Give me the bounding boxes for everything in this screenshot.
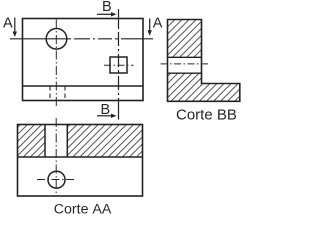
front view outline xyxy=(23,19,144,101)
square recess xyxy=(110,57,127,73)
hole circle xyxy=(46,29,67,50)
section AA hole circle xyxy=(48,171,65,188)
section AA hole horizontal centerline xyxy=(37,179,77,181)
hidden line right xyxy=(64,86,66,101)
section AA outline xyxy=(18,125,143,197)
section BB slot upper edge xyxy=(168,56,202,58)
section AA left hatch xyxy=(18,125,46,158)
arrow A right xyxy=(148,19,152,36)
cutting plane B-B line top solid part xyxy=(118,9,120,26)
arrow B top xyxy=(97,12,117,16)
square recess horizontal centerline xyxy=(104,64,134,66)
cutting plane B-B line middle dash-dot part xyxy=(118,26,120,101)
svg-text:A: A xyxy=(153,16,163,32)
svg-text:Corte BB: Corte BB xyxy=(176,107,237,124)
svg-text:Corte AA: Corte AA xyxy=(54,202,112,218)
section BB lower hatch xyxy=(168,73,240,101)
arrow B bottom xyxy=(97,114,117,118)
hidden line left xyxy=(49,86,51,101)
section BB upper hatch xyxy=(168,20,202,58)
section AA vertical centerline xyxy=(55,118,57,194)
cutting plane A-A line middle dash-dot part xyxy=(68,38,128,40)
section BB slot centerline xyxy=(161,63,209,65)
section AA hatch band bottom edge xyxy=(18,156,143,158)
hole vertical centerline xyxy=(55,20,57,109)
arrow A left xyxy=(13,18,17,38)
cutting plane A-A line right solid part xyxy=(128,38,153,40)
svg-text:B: B xyxy=(101,102,111,118)
section AA hole right wall xyxy=(66,125,68,158)
svg-text:B: B xyxy=(102,0,112,15)
front view base edge line xyxy=(23,85,144,87)
section BB outline xyxy=(168,20,240,102)
section BB slot lower edge xyxy=(168,72,202,74)
cutting plane A-A line left solid part xyxy=(10,38,68,40)
section AA right hatch xyxy=(67,125,142,158)
cutting plane B-B line bottom solid part xyxy=(118,101,120,120)
svg-text:A: A xyxy=(3,16,13,32)
section AA hole left wall xyxy=(44,125,46,158)
